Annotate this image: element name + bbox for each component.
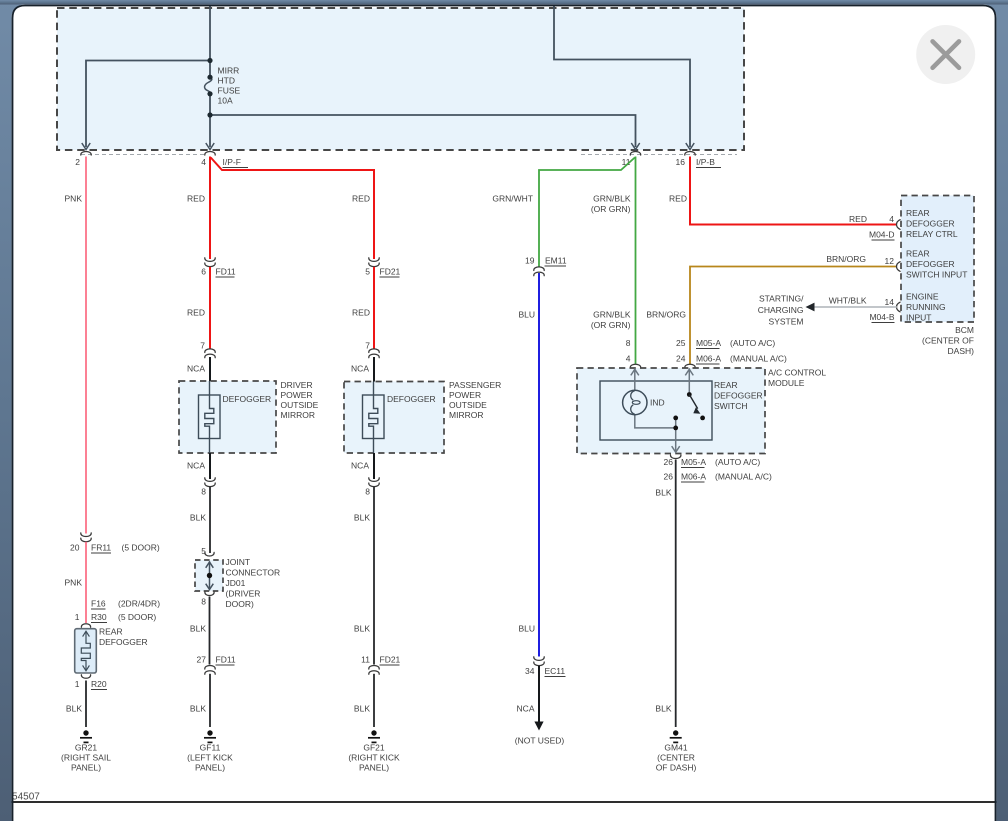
- svg-text:REAR: REAR: [906, 208, 930, 218]
- svg-text:1: 1: [75, 679, 80, 689]
- svg-text:ENGINE: ENGINE: [906, 292, 939, 302]
- ground GF11: [207, 730, 212, 735]
- wire from battery top to fuse: [209, 5, 211, 77]
- junction node fuse top: [207, 58, 212, 63]
- rear defogger switch inner box: [600, 381, 712, 440]
- svg-text:8: 8: [201, 597, 206, 607]
- svg-text:(OR GRN): (OR GRN): [591, 204, 631, 214]
- svg-text:(DRIVER: (DRIVER: [226, 589, 261, 599]
- svg-text:(MANUAL A/C): (MANUAL A/C): [730, 354, 787, 364]
- svg-text:BLK: BLK: [354, 704, 370, 714]
- wire from top to pin 16: [554, 5, 690, 147]
- svg-text:JOINT: JOINT: [226, 557, 251, 567]
- BCM pin 12 arc: [897, 262, 901, 272]
- junction node fuse bottom: [207, 112, 212, 117]
- svg-text:HTD: HTD: [218, 76, 235, 86]
- IND lamp: [623, 390, 647, 414]
- BCM pin 14 arc: [897, 302, 901, 312]
- connector pin 8 driver: [205, 478, 215, 482]
- svg-text:GF11: GF11: [200, 743, 221, 753]
- ground GM41: [673, 730, 678, 735]
- not used arrow: [534, 722, 543, 731]
- wire RED FD11 to mirror pin7: [209, 267, 211, 349]
- svg-text:M05-A: M05-A: [681, 457, 706, 467]
- svg-text:BLK: BLK: [354, 624, 370, 634]
- fuse MIRR HTD FUSE 10A: [205, 77, 212, 94]
- svg-text:SWITCH INPUT: SWITCH INPUT: [906, 270, 967, 280]
- wire PNK FR11 to R30: [85, 542, 87, 623]
- wire NCA into driver mirror: [209, 357, 211, 396]
- svg-text:26: 26: [664, 472, 674, 482]
- svg-text:STARTING/: STARTING/: [759, 294, 804, 304]
- svg-text:DEFOGGER: DEFOGGER: [387, 394, 436, 404]
- svg-text:INPUT: INPUT: [906, 313, 932, 323]
- svg-text:POWER: POWER: [449, 390, 481, 400]
- svg-text:GR21: GR21: [75, 743, 97, 753]
- svg-text:M06-A: M06-A: [696, 354, 721, 364]
- svg-text:25: 25: [676, 338, 686, 348]
- svg-text:DEFOGGER: DEFOGGER: [714, 391, 763, 401]
- wire NCA below driver mirror: [209, 453, 211, 479]
- connector EC11 pin 34: [534, 657, 544, 661]
- svg-text:BLK: BLK: [655, 704, 671, 714]
- footer separator line: [12, 801, 997, 803]
- svg-text:NCA: NCA: [187, 461, 205, 471]
- svg-text:14: 14: [885, 297, 895, 307]
- wire NCA to not used: [538, 666, 540, 722]
- svg-text:PANEL): PANEL): [195, 763, 225, 773]
- rear defogger top arc: [81, 624, 90, 628]
- rear defogger switch contacts: [687, 392, 692, 397]
- svg-text:FR11: FR11: [91, 543, 111, 553]
- arcs at module top edge: [630, 364, 640, 368]
- arrow to starting/charging system: [806, 303, 815, 312]
- svg-text:FUSE: FUSE: [218, 86, 241, 96]
- svg-text:POWER: POWER: [281, 390, 313, 400]
- joint connector JD01 box: [195, 560, 223, 591]
- svg-text:A/C CONTROL: A/C CONTROL: [768, 368, 826, 378]
- BCM box: [901, 196, 974, 323]
- svg-text:M04-B: M04-B: [869, 312, 894, 322]
- pin 4 connector arc: [205, 152, 215, 156]
- svg-text:CHARGING: CHARGING: [758, 305, 804, 315]
- rear defogger bottom arc R20: [81, 675, 90, 679]
- svg-text:8: 8: [365, 487, 370, 497]
- A/C control module box: [577, 368, 765, 454]
- pin 16 connector arc: [685, 152, 695, 156]
- wire RED pin4 down to FD11: [209, 157, 211, 260]
- svg-text:PANEL): PANEL): [71, 763, 101, 773]
- JD01 junction dot: [207, 573, 212, 578]
- svg-text:GM41: GM41: [664, 743, 687, 753]
- wire GRN pin11 down to module: [635, 157, 637, 365]
- svg-text:BRN/ORG: BRN/ORG: [826, 254, 866, 264]
- BCM pin 4 arc: [897, 220, 901, 230]
- wire BLK to ground GF11: [209, 674, 211, 727]
- svg-text:MODULE: MODULE: [768, 378, 805, 388]
- svg-text:4: 4: [889, 214, 894, 224]
- svg-text:MIRROR: MIRROR: [449, 410, 483, 420]
- svg-text:GF21: GF21: [363, 743, 385, 753]
- svg-text:PNK: PNK: [65, 194, 83, 204]
- svg-text:RED: RED: [187, 308, 205, 318]
- svg-text:(OR GRN): (OR GRN): [591, 320, 631, 330]
- svg-text:RED: RED: [352, 194, 370, 204]
- module internal wires: [634, 369, 636, 391]
- svg-text:DEFOGGER: DEFOGGER: [223, 394, 272, 404]
- svg-text:(CENTER: (CENTER: [657, 753, 695, 763]
- svg-text:NCA: NCA: [517, 704, 535, 714]
- svg-text:NCA: NCA: [351, 364, 369, 374]
- module exit arc pin 26: [670, 455, 680, 459]
- svg-text:IND: IND: [650, 398, 665, 408]
- svg-text:EM11: EM11: [545, 256, 567, 266]
- svg-text:PANEL): PANEL): [359, 763, 389, 773]
- wire branch right to pin 11: [210, 115, 636, 147]
- connector FD11 pin 6: [205, 258, 215, 262]
- wire BLK driver to JD01: [209, 487, 211, 553]
- svg-text:(AUTO A/C): (AUTO A/C): [715, 457, 760, 467]
- svg-text:REAR: REAR: [99, 627, 123, 637]
- svg-text:DOOR): DOOR): [226, 599, 255, 609]
- svg-text:2: 2: [75, 157, 80, 167]
- wire GRN/WHT branch to EM11: [539, 158, 635, 267]
- svg-text:RELAY CTRL: RELAY CTRL: [906, 229, 958, 239]
- wire fuse bottom to junction: [209, 94, 211, 148]
- svg-text:GRN/WHT: GRN/WHT: [492, 194, 533, 204]
- connector I/P-F face line: [81, 154, 207, 156]
- wire BLU EM11 to EC11: [538, 273, 540, 657]
- pin 11 connector arc: [630, 152, 640, 156]
- svg-text:PASSENGER: PASSENGER: [449, 380, 501, 390]
- wire BRN/ORG BCM pin12 to module: [690, 267, 897, 365]
- svg-text:DEFOGGER: DEFOGGER: [906, 259, 955, 269]
- svg-text:SWITCH: SWITCH: [714, 401, 748, 411]
- svg-text:F16: F16: [91, 599, 106, 609]
- svg-text:M04-D: M04-D: [869, 230, 895, 240]
- defogger element passenger: [363, 395, 385, 439]
- svg-text:BLK: BLK: [354, 513, 370, 523]
- wire BLK JD01 to FD11: [209, 597, 211, 665]
- svg-text:PNK: PNK: [65, 578, 83, 588]
- wire BLK module to GM41: [675, 460, 677, 728]
- svg-text:RED: RED: [669, 194, 687, 204]
- connector pin 8 passenger: [369, 478, 379, 482]
- ground GF21: [371, 730, 376, 735]
- svg-text:BCM: BCM: [955, 325, 974, 335]
- svg-text:RED: RED: [187, 194, 205, 204]
- wire NCA into passenger mirror: [373, 357, 375, 396]
- svg-text:EC11: EC11: [545, 666, 566, 676]
- svg-text:R30: R30: [91, 612, 107, 622]
- svg-text:BLK: BLK: [190, 624, 206, 634]
- svg-text:BLK: BLK: [190, 513, 206, 523]
- svg-text:(NOT USED): (NOT USED): [515, 736, 565, 746]
- svg-text:REAR: REAR: [714, 380, 738, 390]
- svg-text:M05-A: M05-A: [696, 338, 721, 348]
- svg-text:WHT/BLK: WHT/BLK: [829, 296, 867, 306]
- ground GR21: [83, 730, 88, 735]
- svg-text:RUNNING: RUNNING: [906, 302, 946, 312]
- svg-text:1: 1: [75, 612, 80, 622]
- svg-text:M06-A: M06-A: [681, 472, 706, 482]
- svg-text:BRN/ORG: BRN/ORG: [646, 310, 686, 320]
- svg-text:R20: R20: [91, 679, 107, 689]
- switch blade: [689, 395, 697, 409]
- arrows into fuse box bottom edge: [82, 143, 90, 150]
- wire RED branch to passenger FD21: [211, 158, 374, 260]
- svg-text:DASH): DASH): [948, 346, 975, 356]
- connector FD21 pin 5: [369, 258, 379, 262]
- wire RED pin16 to BCM pin4: [690, 157, 897, 225]
- svg-text:8: 8: [201, 487, 206, 497]
- svg-text:JD01: JD01: [226, 578, 246, 588]
- wire BLK to ground GR21: [85, 681, 87, 728]
- svg-text:26: 26: [664, 457, 674, 467]
- fuse terminal bottom: [207, 91, 212, 96]
- wire NCA below passenger mirror: [373, 453, 375, 479]
- svg-text:854507: 854507: [7, 792, 41, 803]
- svg-text:GRN/BLK: GRN/BLK: [593, 310, 631, 320]
- svg-text:NCA: NCA: [187, 364, 205, 374]
- connector I/P-B face line: [581, 154, 737, 156]
- svg-text:(5 DOOR): (5 DOOR): [118, 612, 156, 622]
- svg-text:11: 11: [361, 655, 370, 665]
- wire WHT/BLK to starting system: [813, 306, 897, 308]
- svg-text:12: 12: [885, 256, 895, 266]
- svg-text:(2DR/4DR): (2DR/4DR): [118, 599, 160, 609]
- svg-text:I/P-B: I/P-B: [696, 157, 715, 167]
- svg-text:10A: 10A: [218, 96, 233, 106]
- svg-text:(MANUAL A/C): (MANUAL A/C): [715, 472, 772, 482]
- connector pin 7 passenger: [369, 349, 379, 353]
- svg-text:34: 34: [525, 666, 535, 676]
- svg-text:I/P-F: I/P-F: [223, 157, 241, 167]
- svg-text:DRIVER: DRIVER: [281, 380, 313, 390]
- svg-text:CONNECTOR: CONNECTOR: [226, 568, 281, 578]
- svg-text:FD21: FD21: [380, 655, 401, 665]
- svg-text:RED: RED: [352, 308, 370, 318]
- svg-text:(CENTER OF: (CENTER OF: [922, 336, 974, 346]
- svg-text:FD11: FD11: [216, 267, 236, 277]
- svg-text:24: 24: [676, 354, 686, 364]
- svg-text:6: 6: [201, 267, 206, 277]
- svg-text:(RIGHT SAIL: (RIGHT SAIL: [61, 753, 111, 763]
- svg-text:BLK: BLK: [655, 488, 671, 498]
- svg-text:MIRROR: MIRROR: [281, 410, 315, 420]
- svg-text:(LEFT KICK: (LEFT KICK: [187, 753, 233, 763]
- svg-text:19: 19: [525, 256, 535, 266]
- svg-text:16: 16: [676, 157, 686, 167]
- svg-text:27: 27: [197, 655, 207, 665]
- wire BLK to ground GF21: [373, 674, 375, 727]
- svg-text:7: 7: [200, 341, 205, 351]
- svg-text:7: 7: [365, 341, 370, 351]
- svg-text:(AUTO A/C): (AUTO A/C): [730, 338, 775, 348]
- svg-text:FD21: FD21: [380, 267, 401, 277]
- driver power outside mirror box: [179, 381, 276, 453]
- wire branch left to pin 2: [86, 61, 210, 148]
- svg-text:NCA: NCA: [351, 461, 369, 471]
- svg-text:OF DASH): OF DASH): [656, 763, 697, 773]
- connector pin 7 driver: [205, 349, 215, 353]
- svg-text:(RIGHT KICK: (RIGHT KICK: [348, 753, 400, 763]
- svg-text:BLK: BLK: [66, 704, 82, 714]
- svg-text:20: 20: [70, 543, 80, 553]
- svg-text:8: 8: [626, 338, 631, 348]
- svg-text:4: 4: [201, 157, 206, 167]
- JD01 pin 8 arc: [205, 592, 214, 596]
- wire PNK pin2 down: [85, 157, 87, 534]
- svg-text:GRN/BLK: GRN/BLK: [593, 194, 631, 204]
- svg-text:MIRR: MIRR: [218, 66, 240, 76]
- svg-text:BLU: BLU: [518, 624, 535, 634]
- svg-text:SYSTEM: SYSTEM: [769, 317, 804, 327]
- defogger element driver: [199, 395, 221, 439]
- svg-text:DEFOGGER: DEFOGGER: [906, 219, 955, 229]
- connector FR11 pin 20: [81, 533, 91, 537]
- close button: [916, 25, 975, 84]
- svg-text:5: 5: [365, 267, 370, 277]
- rear defogger component: [75, 629, 97, 673]
- wire BLK passenger down: [373, 487, 375, 665]
- pin 2 connector arc: [81, 152, 91, 156]
- svg-text:DEFOGGER: DEFOGGER: [99, 637, 148, 647]
- fuse box I/P power distribution: [57, 8, 744, 150]
- svg-text:BLU: BLU: [518, 310, 535, 320]
- fuse terminal top: [207, 75, 212, 80]
- svg-text:FD11: FD11: [216, 655, 236, 665]
- passenger power outside mirror box: [344, 382, 444, 454]
- svg-text:BLK: BLK: [190, 704, 206, 714]
- svg-text:REAR: REAR: [906, 249, 930, 259]
- svg-text:RED: RED: [849, 214, 867, 224]
- svg-text:OUTSIDE: OUTSIDE: [449, 400, 487, 410]
- svg-text:OUTSIDE: OUTSIDE: [281, 400, 319, 410]
- svg-text:4: 4: [626, 354, 631, 364]
- svg-text:(5 DOOR): (5 DOOR): [122, 543, 160, 553]
